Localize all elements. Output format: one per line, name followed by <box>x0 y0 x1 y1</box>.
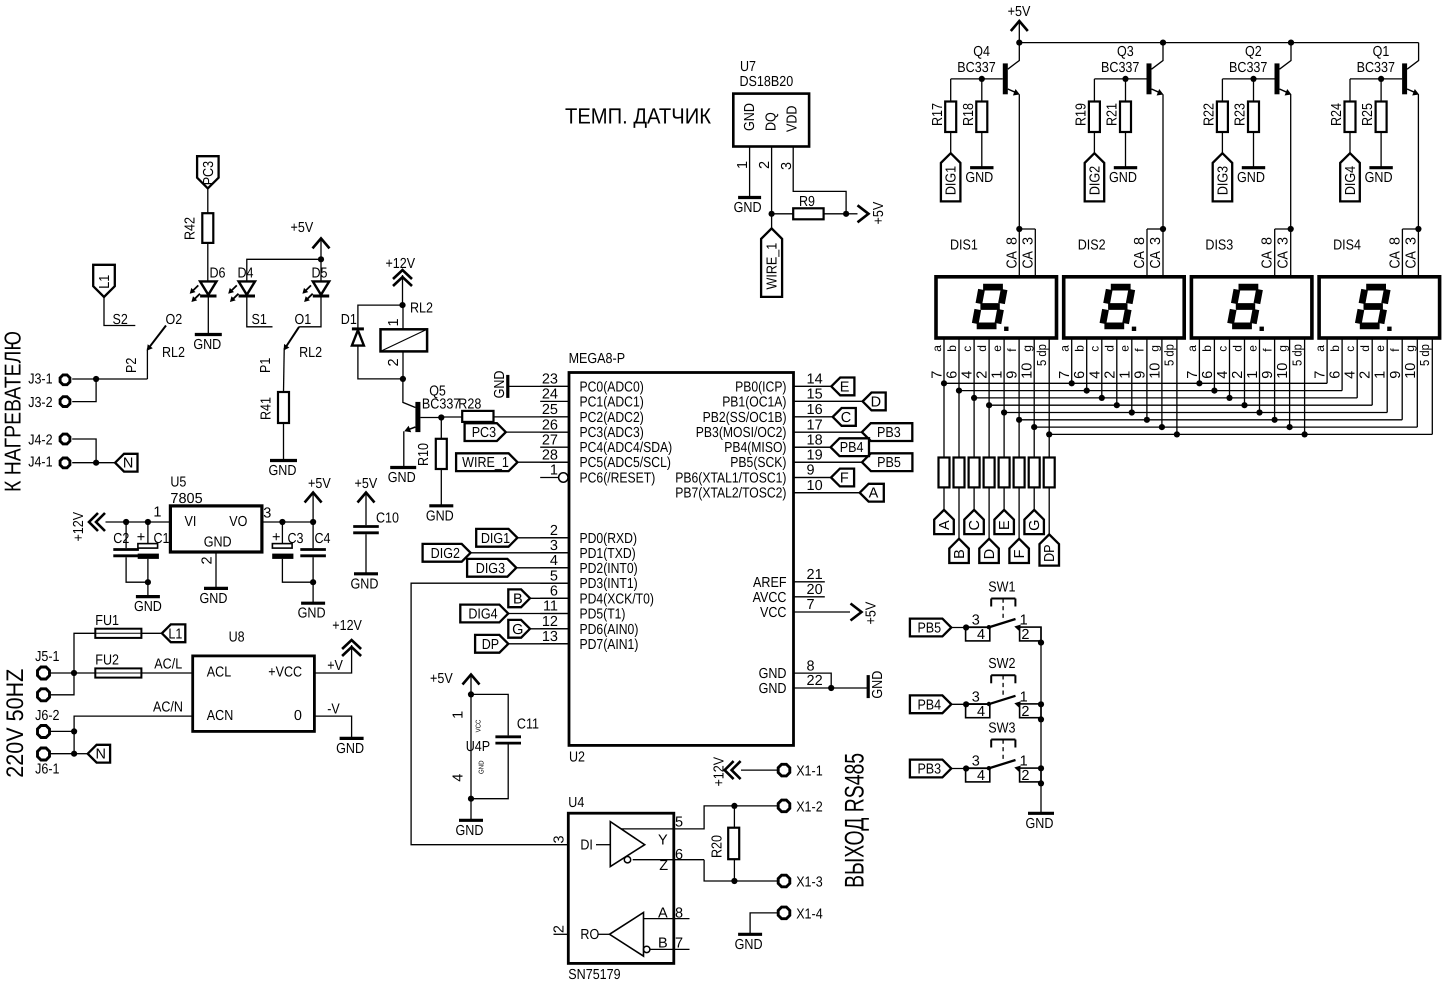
svg-text:PB7(XTAL2/TOSC2): PB7(XTAL2/TOSC2) <box>675 486 786 502</box>
svg-text:PB1(OC1A): PB1(OC1A) <box>722 394 786 410</box>
svg-text:7: 7 <box>807 597 815 613</box>
pin dp of DIS4 <box>1417 338 1432 434</box>
wire D4 to S1 <box>247 296 273 327</box>
pin a of DIS3 <box>1185 338 1201 383</box>
wire L1 to S2 contact <box>104 297 135 326</box>
svg-text:PD6(AIN0): PD6(AIN0) <box>580 622 639 638</box>
svg-text:g: g <box>1403 345 1417 352</box>
svg-text:7: 7 <box>1313 371 1329 379</box>
junction base of Q3 <box>1122 76 1128 82</box>
svg-text:J3-1: J3-1 <box>28 372 52 388</box>
svg-text:BC337: BC337 <box>957 60 995 76</box>
pin 3 PD1(TXD) of U2 <box>540 538 636 562</box>
junction bus f DIS2 <box>1144 417 1150 423</box>
svg-text:DIG3: DIG3 <box>476 561 505 577</box>
pin labels CA DIS4 <box>1387 237 1419 269</box>
pin 3 of U7 <box>779 147 846 214</box>
svg-text:R24: R24 <box>1329 103 1345 126</box>
LED D4 <box>228 259 321 302</box>
svg-text:C1: C1 <box>154 531 170 547</box>
capacitor C4 <box>300 522 330 582</box>
transistor Q2 BC337 <box>1222 43 1291 96</box>
svg-text:+5V: +5V <box>291 220 314 236</box>
wire segment bus c <box>974 397 1357 399</box>
junction under C1 <box>145 579 151 585</box>
connector X1-4 <box>778 906 823 922</box>
pin 15 PB1(OC1A) of U2 <box>722 387 862 411</box>
svg-text:GND: GND <box>1237 170 1265 186</box>
capacitor C10 <box>353 476 399 573</box>
svg-text:PB4: PB4 <box>917 697 941 713</box>
svg-text:BC337: BC337 <box>1101 60 1139 76</box>
svg-text:ACN: ACN <box>207 708 234 724</box>
pin 7 of U4 <box>675 936 683 952</box>
svg-text:Y: Y <box>658 833 668 849</box>
svg-text:CA: CA <box>1276 251 1292 269</box>
pin 1 label of U5 <box>153 505 161 521</box>
svg-text:+VCC: +VCC <box>268 664 302 680</box>
capacitor C1 <box>137 522 170 582</box>
svg-text:R19: R19 <box>1074 103 1090 126</box>
svg-text:CA: CA <box>1148 251 1164 269</box>
flag A <box>934 487 954 534</box>
svg-text:AREF: AREF <box>753 575 787 591</box>
svg-text:4: 4 <box>1215 371 1231 379</box>
svg-text:C11: C11 <box>517 717 539 733</box>
svg-text:PB3: PB3 <box>917 762 941 778</box>
pin 5 of U4 <box>674 806 735 831</box>
resistor segment network R2 <box>954 458 965 488</box>
svg-text:c: c <box>960 346 974 352</box>
flag E <box>994 487 1014 534</box>
junction rail at Q3 <box>1160 40 1166 46</box>
svg-text:e: e <box>1373 345 1387 352</box>
svg-text:Q4: Q4 <box>973 44 990 60</box>
resistor segment network R7 <box>1029 458 1040 488</box>
resistor R42 with flag PC3 <box>183 156 219 281</box>
svg-text:U4: U4 <box>568 795 584 811</box>
svg-text:12: 12 <box>542 614 558 630</box>
ground under switches <box>1026 813 1054 832</box>
flag D <box>979 487 999 563</box>
svg-text:RL2: RL2 <box>299 345 322 361</box>
junction J6-2 <box>71 728 77 734</box>
svg-text:4: 4 <box>550 553 558 569</box>
svg-text:J3-2: J3-2 <box>28 395 52 411</box>
svg-text:+12V: +12V <box>386 256 416 272</box>
svg-text:GND: GND <box>492 370 508 398</box>
junction bus c DIS2 <box>1099 395 1105 401</box>
svg-text:GND: GND <box>965 170 993 186</box>
svg-text:R9: R9 <box>799 194 815 210</box>
svg-text:U8: U8 <box>229 630 245 646</box>
svg-text:C3: C3 <box>288 531 304 547</box>
junction SW1 out <box>1038 640 1044 646</box>
resistor R10 <box>416 418 447 505</box>
junction bus b DIS2 <box>1084 388 1090 394</box>
svg-text:P1: P1 <box>258 358 274 373</box>
svg-text:E: E <box>997 520 1013 530</box>
svg-text:22: 22 <box>807 673 823 689</box>
wire J3 to contact P2 <box>96 378 147 380</box>
svg-text:E: E <box>840 379 850 395</box>
svg-text:+5V: +5V <box>864 602 880 625</box>
svg-text:GND: GND <box>351 576 379 592</box>
svg-text:4: 4 <box>977 704 985 720</box>
svg-text:1: 1 <box>990 371 1006 379</box>
svg-text:S2: S2 <box>113 312 128 328</box>
power +12V arrow at U5 input <box>71 512 170 542</box>
svg-text:X1-2: X1-2 <box>796 799 823 815</box>
svg-text:d: d <box>975 345 989 352</box>
svg-text:8: 8 <box>807 658 815 674</box>
junction SW3 out <box>1038 780 1044 786</box>
flag L1 above S2 <box>93 265 115 297</box>
junction C4 <box>310 519 316 525</box>
flag DIG3 <box>1213 132 1233 201</box>
svg-text:13: 13 <box>542 629 558 645</box>
svg-text:C4: C4 <box>315 531 331 547</box>
connector J4-2 <box>28 432 96 462</box>
svg-text:2: 2 <box>1230 371 1246 379</box>
svg-text:21: 21 <box>807 567 823 583</box>
svg-text:DIG2: DIG2 <box>431 546 460 562</box>
svg-text:G: G <box>1027 520 1043 531</box>
connector X1-2 <box>734 799 822 815</box>
svg-text:DIS3: DIS3 <box>1205 238 1233 254</box>
pin 2 RO of U4 <box>552 925 610 943</box>
junction bus d DIS2 <box>1114 402 1120 408</box>
junction bus g DIS3 <box>1287 424 1293 430</box>
flag DIG4 <box>1340 132 1360 201</box>
svg-text:PC3: PC3 <box>201 161 217 185</box>
svg-text:PD1(TXD): PD1(TXD) <box>580 546 636 562</box>
flag DIG2 at pin 3 <box>423 544 569 562</box>
transistor Q5 BC337 <box>403 379 481 467</box>
resistor R19 <box>1074 79 1100 132</box>
svg-text:d: d <box>1103 345 1117 352</box>
svg-text:AC/L: AC/L <box>154 657 182 673</box>
junction bus g DIS2 <box>1159 424 1165 430</box>
svg-text:Z: Z <box>659 858 668 874</box>
svg-text:26: 26 <box>542 417 558 433</box>
pin 19 PB5(SCK) of U2 <box>730 447 862 471</box>
svg-text:ВЫХОД RS485: ВЫХОД RS485 <box>840 753 870 888</box>
svg-text:9: 9 <box>807 463 815 479</box>
receiver buffer of U4 <box>610 905 690 956</box>
svg-text:6: 6 <box>550 584 558 600</box>
resistor R17 <box>930 79 956 132</box>
svg-text:BC337: BC337 <box>1229 60 1267 76</box>
power +12V arrow above U8 <box>332 618 362 656</box>
svg-text:8: 8 <box>1387 237 1403 245</box>
svg-text:Q2: Q2 <box>1245 44 1262 60</box>
resistor R9 <box>772 194 847 219</box>
svg-text:GND: GND <box>336 741 364 757</box>
pin 11 PD5(T1) of U2 <box>540 599 625 623</box>
power +12V arrow at X1-1 <box>712 757 779 787</box>
resistor segment network R8 <box>1044 458 1055 488</box>
svg-text:DIG2: DIG2 <box>1087 166 1103 195</box>
svg-text:a: a <box>1058 345 1072 352</box>
junction rail at Q2 <box>1288 40 1294 46</box>
flag DIG1 at pin 2 <box>476 529 569 547</box>
svg-text:GND: GND <box>1026 816 1054 832</box>
svg-text:PC2(ADC2): PC2(ADC2) <box>580 410 644 426</box>
resistor R18 <box>961 79 988 132</box>
pin 24 PC1(ADC1) of U2 <box>540 387 644 411</box>
pin d of DIS1 <box>975 338 991 458</box>
pin 14 PB0(ICP) of U2 <box>735 372 831 396</box>
seven-segment display DIS4 body <box>1319 238 1440 339</box>
pin e of DIS3 <box>1245 338 1261 413</box>
svg-text:0: 0 <box>294 708 302 724</box>
pin 6 PD4(XCK/T0) of U2 <box>540 584 654 608</box>
svg-text:2: 2 <box>550 523 558 539</box>
svg-text:1: 1 <box>451 711 467 719</box>
pin 1 PC6(/RESET) of U2 <box>540 463 655 487</box>
svg-text:GND: GND <box>388 470 416 486</box>
svg-text:3: 3 <box>263 506 271 522</box>
wire segment bus g <box>1034 426 1417 428</box>
pin 5 PD3(INT1) of U2 <box>540 568 638 592</box>
svg-text:PB5: PB5 <box>877 455 901 471</box>
svg-text:SW1: SW1 <box>988 579 1015 595</box>
svg-text:B: B <box>513 591 523 607</box>
svg-text:PB0(ICP): PB0(ICP) <box>735 379 786 395</box>
svg-text:a: a <box>930 345 944 352</box>
svg-text:2: 2 <box>1102 371 1118 379</box>
svg-text:GND: GND <box>426 508 454 524</box>
flag PC3 to pin 26 <box>465 423 569 441</box>
switch contact S1/O1 of RL2 <box>252 312 323 392</box>
svg-text:+5V: +5V <box>1008 4 1031 20</box>
pin a of DIS1 <box>930 338 946 458</box>
svg-text:R10: R10 <box>416 443 432 466</box>
svg-text:WIRE_1: WIRE_1 <box>462 455 509 471</box>
svg-text:FU1: FU1 <box>95 613 119 629</box>
junction rail at Q4 <box>1016 40 1022 46</box>
svg-text:J4-1: J4-1 <box>28 455 52 471</box>
pin d of DIS4 <box>1358 338 1374 405</box>
svg-text:DI: DI <box>580 838 593 854</box>
svg-text:VCC: VCC <box>476 720 483 733</box>
resistor R23 <box>1233 79 1260 132</box>
junction bus b DIS3 <box>1211 388 1217 394</box>
junction base of Q4 <box>979 76 985 82</box>
flag G at pin 12 <box>508 620 569 638</box>
pin 22 GND of U2 <box>759 673 869 697</box>
svg-text:Q1: Q1 <box>1373 44 1390 60</box>
junction Q5 base <box>438 414 444 420</box>
svg-text:3: 3 <box>1148 237 1164 245</box>
resistor R41 <box>259 392 290 460</box>
switch SW1 <box>966 579 1041 643</box>
svg-text:GND: GND <box>734 200 762 216</box>
svg-text:5 dp: 5 dp <box>1034 344 1049 366</box>
junction J6-1 <box>71 751 77 757</box>
power +5V at U4P <box>430 671 480 694</box>
pin b of DIS1 <box>945 338 961 458</box>
flag N at J6 <box>74 745 110 763</box>
junction bus dp DIS3 <box>1302 431 1308 437</box>
flag B <box>949 487 969 563</box>
wire segment bus e <box>1004 412 1387 414</box>
wire U5 output <box>262 521 313 523</box>
wire X1-4 to ground <box>750 913 778 933</box>
ground under R10 <box>426 506 454 525</box>
svg-text:RL2: RL2 <box>410 301 433 317</box>
pin 21 AREF of U2 <box>753 567 825 591</box>
switch SW3 <box>966 720 1041 784</box>
flag PB3 <box>794 423 913 441</box>
junction SW3 left <box>963 765 969 771</box>
svg-text:DIS1: DIS1 <box>950 238 978 254</box>
pin 2 wire of U5 <box>200 552 217 587</box>
flag PB4 <box>794 438 870 456</box>
svg-text:N: N <box>95 747 105 763</box>
junction SW2 pin1 <box>1038 701 1044 707</box>
connector J4-1 <box>28 455 96 471</box>
relay coil RL2 <box>381 305 428 379</box>
junction SW1 left <box>963 624 969 630</box>
svg-text:DIS4: DIS4 <box>1333 238 1361 254</box>
junction relay top <box>399 301 433 317</box>
wire C4 to ground <box>312 582 314 602</box>
junction bus a DIS2 <box>1069 380 1075 386</box>
junction CA DIS1 <box>1016 226 1022 232</box>
junction CA DIS2 <box>1160 226 1166 232</box>
svg-text:PD2(INT0): PD2(INT0) <box>580 561 638 577</box>
svg-text:28: 28 <box>542 447 558 463</box>
svg-text:b: b <box>1328 345 1342 352</box>
svg-text:27: 27 <box>542 432 558 448</box>
svg-text:D4: D4 <box>238 266 254 282</box>
junction relay bottom <box>400 376 406 382</box>
ground under R25 <box>1365 132 1393 186</box>
svg-text:g: g <box>1275 345 1289 352</box>
power +12V above relay <box>386 256 416 305</box>
svg-text:VCC: VCC <box>760 605 787 621</box>
svg-text:+5V: +5V <box>355 476 378 492</box>
pin 7 VCC of U2 <box>760 597 880 624</box>
svg-text:CA: CA <box>1403 251 1419 269</box>
ground under U7 pin1 <box>734 198 762 217</box>
IC U7 DS18B20 body <box>733 59 809 147</box>
svg-text:g: g <box>1148 345 1162 352</box>
svg-text:6: 6 <box>945 371 961 379</box>
wire segment bus f <box>1019 419 1402 421</box>
svg-text:DIG4: DIG4 <box>1343 166 1359 195</box>
junction bus f DIS3 <box>1272 417 1278 423</box>
wire switch ground bus <box>1040 627 1042 812</box>
svg-text:PC3: PC3 <box>472 425 496 441</box>
svg-text:GND: GND <box>134 599 162 615</box>
svg-text:d: d <box>1358 345 1372 352</box>
pin c of DIS3 <box>1215 338 1231 398</box>
svg-text:6: 6 <box>675 847 683 863</box>
connector J6-1 <box>35 731 74 777</box>
resistor R20 <box>710 806 740 881</box>
flag C <box>964 487 984 534</box>
svg-text:5 dp: 5 dp <box>1162 344 1177 366</box>
pin 4 PD2(INT0) of U2 <box>540 553 638 577</box>
svg-text:J5-1: J5-1 <box>35 649 59 665</box>
svg-text:3: 3 <box>1020 237 1036 245</box>
flag WIRE_1 under U7 <box>761 228 782 297</box>
svg-text:DIS2: DIS2 <box>1078 238 1106 254</box>
svg-text:D5: D5 <box>312 266 328 282</box>
junction bus f DIS1 <box>1016 417 1022 423</box>
resistor segment network R4 <box>984 458 995 488</box>
svg-text:C2: C2 <box>113 531 129 547</box>
junction C3 <box>279 519 285 525</box>
flag B at pin 6 <box>508 589 569 607</box>
power +5V above D5 <box>291 220 330 259</box>
svg-text:Q3: Q3 <box>1117 44 1134 60</box>
pin 1 of U7 <box>735 147 751 197</box>
svg-text:e: e <box>1245 345 1259 352</box>
svg-text:1: 1 <box>1373 371 1389 379</box>
junction SW2 out <box>1038 716 1044 722</box>
svg-text:GND: GND <box>204 535 232 551</box>
svg-text:16: 16 <box>807 402 823 418</box>
flag D <box>794 393 886 411</box>
svg-text:+12V: +12V <box>71 512 87 542</box>
svg-text:GND: GND <box>735 937 763 953</box>
svg-text:GND: GND <box>456 823 484 839</box>
svg-text:1: 1 <box>153 505 161 521</box>
svg-text:O2: O2 <box>166 312 183 328</box>
flag WIRE_1 to pin 28 <box>456 453 569 471</box>
pin g of DIS3 <box>1275 338 1291 427</box>
svg-text:R42: R42 <box>183 217 199 240</box>
seven-segment display DIS3 body <box>1191 238 1312 339</box>
pin 26 PC3(ADC3) of U2 <box>540 417 644 441</box>
svg-text:DIG4: DIG4 <box>468 607 497 623</box>
svg-text:PD3(INT1): PD3(INT1) <box>580 576 638 592</box>
svg-text:11: 11 <box>543 599 558 615</box>
svg-text:4: 4 <box>1343 371 1359 379</box>
transistor Q4 BC337 <box>951 43 1020 96</box>
svg-text:c: c <box>1215 346 1229 352</box>
junction bus g DIS1 <box>1031 424 1037 430</box>
junction bus a DIS1 <box>941 380 947 386</box>
junction R9 right <box>843 211 849 217</box>
flag L1 at FU1 <box>162 624 185 642</box>
svg-text:GND: GND <box>193 337 221 353</box>
svg-text:18: 18 <box>807 432 823 448</box>
svg-text:PC6(/RESET): PC6(/RESET) <box>580 471 656 487</box>
flag DIG3 at pin 4 <box>467 559 569 577</box>
junction bus dp DIS1 <box>1046 431 1052 437</box>
svg-text:D: D <box>871 394 881 410</box>
svg-text:MEGA8-P: MEGA8-P <box>569 351 626 367</box>
svg-text:RL2: RL2 <box>162 345 185 361</box>
connector X1-1 <box>778 764 823 780</box>
svg-text:DS18B20: DS18B20 <box>740 74 794 90</box>
junction on DQ net <box>769 211 775 217</box>
svg-text:J6-1: J6-1 <box>35 762 59 778</box>
svg-text:a: a <box>1313 345 1327 352</box>
pin f of DIS2 <box>1132 338 1148 420</box>
svg-text:g: g <box>1020 345 1034 352</box>
junction C1 <box>145 519 151 525</box>
pin c of DIS1 <box>960 338 976 458</box>
svg-text:RO: RO <box>580 927 599 943</box>
svg-text:GND: GND <box>742 103 758 131</box>
svg-text:F: F <box>1012 549 1028 558</box>
